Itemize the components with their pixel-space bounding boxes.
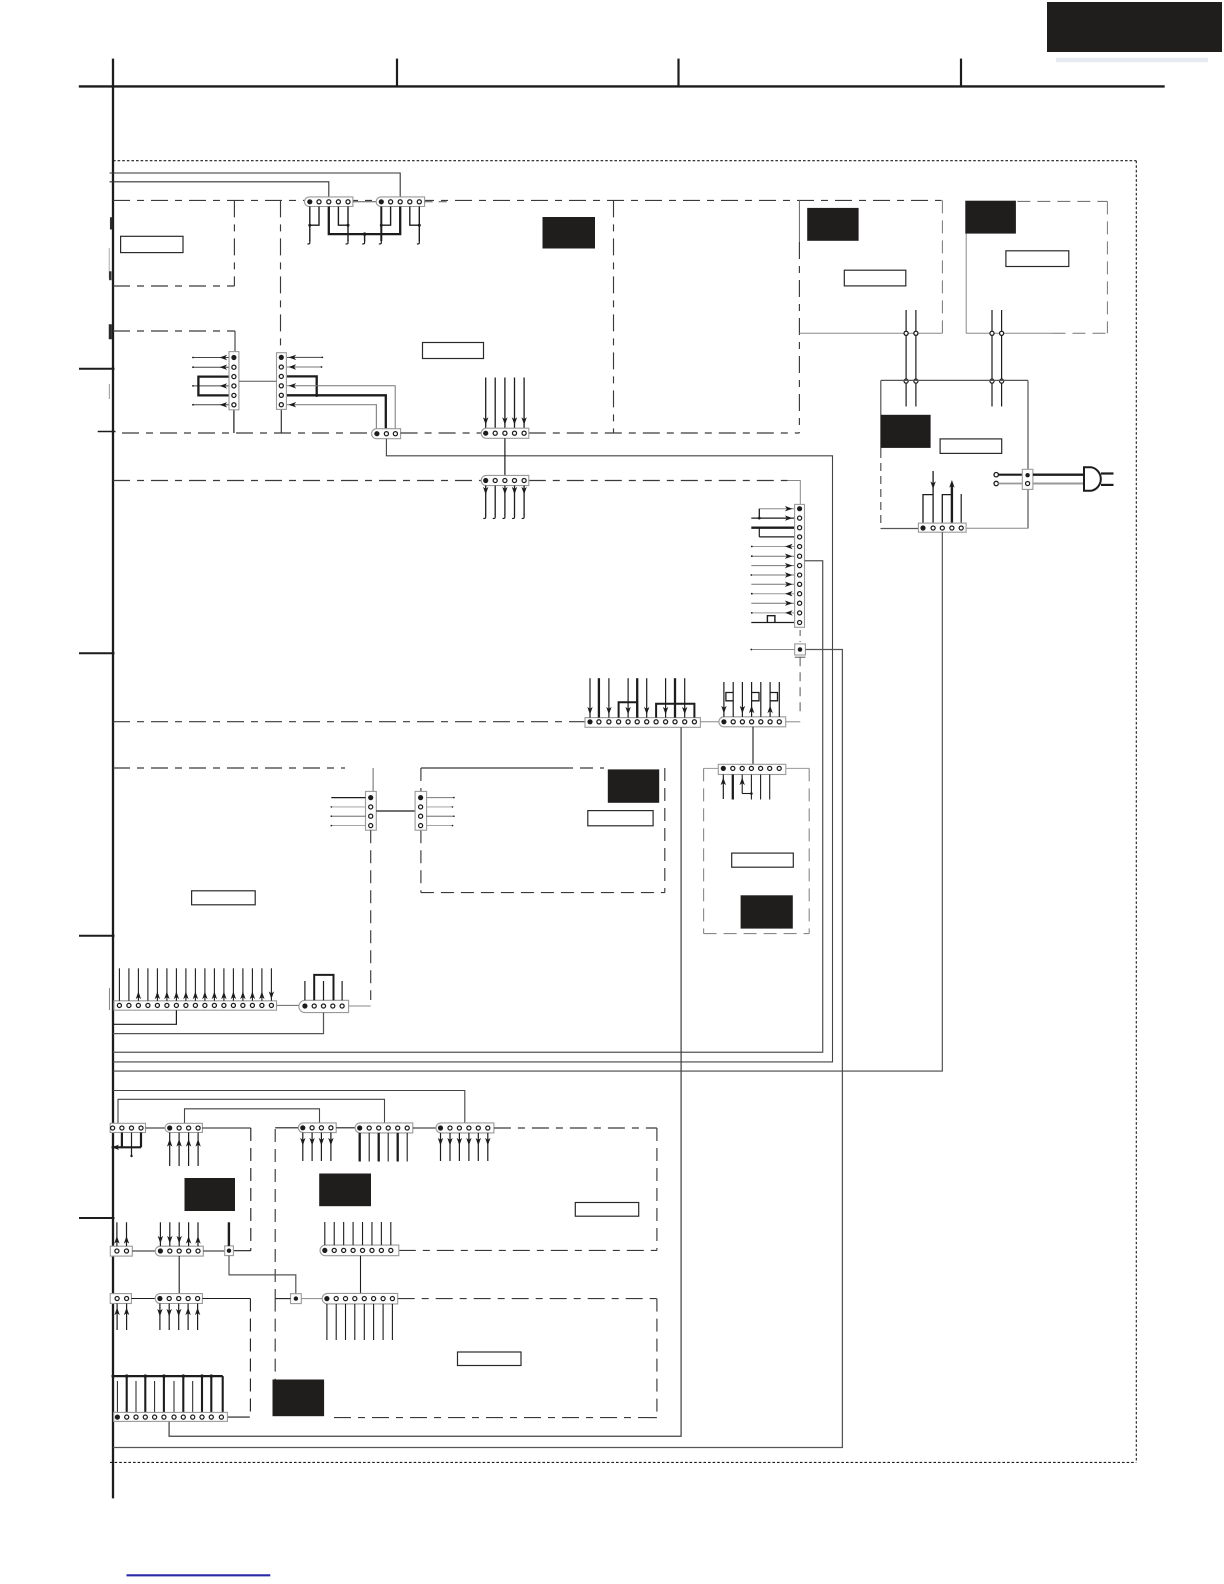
CN101 pin2 signal line (out, left) [192,365,228,370]
harness wires into CN301 [587,678,687,717]
connector CN-P1 (4-pin vertical) [366,791,377,830]
label plate in board B1 [575,1203,638,1217]
module 1b bottom stub of CN101 [233,410,235,433]
wires into CN-W6 [325,1222,391,1245]
wire CN202 pin2 to main-board bus (long) [113,439,833,1062]
module 5 top boundary [1017,200,1107,202]
connector CN-W5b (5-pin) [155,1294,202,1304]
module 5 right edge (dashed) [1106,201,1108,333]
link CN-W5 to CN-X1 [203,1250,224,1252]
CN205 pin4 line [759,536,794,538]
wires out of CN-W3a (arrows down) [300,1133,334,1161]
CN205 pin3-pin4 tie [758,528,760,537]
wire module5 to PSU pair [992,310,1002,407]
CN-S pin5 stub [341,981,343,1000]
CN205 pin2 line (arrow in) [751,515,794,520]
page frame: top tick 2 [677,59,679,87]
CN101 pin4 signal line (out, left) [192,383,228,388]
module 1 box (top-left, dash-dot) [113,200,234,286]
CN-P2 pin2 lead [427,806,454,808]
wires out of CN-W5b [157,1304,200,1331]
CN101 pins3-5 loop jumper (thick) [198,377,228,396]
connector CN-W2 (4-pin) [165,1123,202,1132]
wire CN301 to CN-T row (long) [169,727,681,1436]
connector CN-G (5-pin, PSU) [918,523,966,532]
wires into CN-V1 (arrows up) [114,1222,129,1246]
CN301 bracket pins8-12 [656,704,694,718]
connector CNJ (1-pin) [795,644,806,655]
module 4 bottom edge [799,332,942,334]
wire CN-X1 to CN-X2 [229,1256,296,1294]
CN-A pin4 jumper to pin5 [338,207,349,227]
wire CN-W6 down to CN-W6b [360,1256,362,1294]
CN-T odd-pin hangs [117,1381,192,1412]
CN205 pin1-pin2 tie [758,509,760,518]
inline sockets module5/PSU [990,331,1004,383]
CN-B pin1 drop wire [379,207,381,245]
sub board Q left edge (dashed, CN-P2 sits on it) [420,768,422,893]
connector CN203 (5-pin) [481,428,529,438]
connector CN-A (5-pin) [304,197,352,207]
IC block (redacted) in module 4 [807,208,858,241]
bus wire margin to CN-W4 [113,1091,465,1123]
CN201 pin6 wire to CN202 pin1 [287,402,376,429]
wires out of CN-V2 (arrows up) [114,1304,129,1331]
IC block (redacted) in module 5 [965,201,1016,234]
CN-G pin4 wire with up arrow (thick) [949,480,954,523]
board B1 left edge (dashed) [274,1129,276,1299]
module 2 left edge (dash-dot) [280,200,283,433]
IC block (redacted) in sub board Q [608,769,659,802]
page frame: left tick at y=653 [79,652,115,654]
CN201 pin2 signal line [287,364,322,369]
link CN-S to front board edge [349,1005,371,1007]
wires out of CN-W3 [360,1133,408,1162]
wire CN-W2 to CN-X1 (dash-dot riser) [202,1128,250,1251]
connector CN-T (12-pin) [114,1412,228,1421]
label plate in module 1 [121,236,183,252]
IC block (redacted) on PSU [881,415,931,448]
board B2 left edge (dashed) [274,1299,276,1380]
connector CN-W6 (8-pin) [320,1245,399,1256]
sub board N left edge (dashed) [703,768,705,933]
front board right edge (dashed) below CN-P1 [370,830,372,1000]
CN-P1 pin3 lead [331,815,366,817]
wire CN-W5b to CN-T link (dash-dot riser) [202,1299,250,1418]
label plate in sub board N [732,853,794,867]
CN-A pin1 drop wire [307,207,309,245]
inline sockets module4/PSU [904,331,918,383]
CN205 pin10 line (arrow out) [751,591,794,596]
label plate in module 5 [1006,251,1069,267]
CN101 pin1 signal line (out, left) [192,355,228,360]
page frame: left tick at y=1218 [79,1217,115,1219]
CN205 pin7 line (arrow in) [751,563,794,568]
AC connector (2-pin) [1022,469,1033,489]
module row bottom boundary (dash-dot) left part [122,432,372,434]
CN-B pin2 jumper to pin1 [380,207,391,227]
CN-B pin5 drop wire [417,207,419,245]
page frame: top tick 1 [396,59,398,87]
CN301 bracket pins4-6 [619,702,638,717]
wires into CN-W5 [158,1222,201,1246]
CN-W1 ground bus below [112,1133,142,1158]
CN205 pin8 line (arrow in) [750,572,794,577]
link CN-W5 bottom to CN-W5b [178,1256,180,1294]
IC block (redacted) left of board B2 [273,1380,325,1417]
label plate on PSU [940,439,1002,454]
front board edge riser to CN-P1 [372,768,374,791]
board B2 bottom edge (dash-dot) [334,1417,657,1419]
CN201 pin3 shield jumper (thick) [287,376,318,397]
jumper CN-W1 to CN-W3 [118,1099,385,1123]
CN-P1 pin2 lead [331,806,366,808]
connector CN-W5 (5-pin) [155,1246,203,1256]
module 3 right edge (dash-dot) [798,242,800,433]
module 5 bottom edge [966,332,1107,334]
connector CN-W3 (6-pin) [355,1123,413,1133]
junction on shield wire [363,232,366,235]
connector CN205 (13-pin vertical) [795,504,805,627]
black IC (redacted) above CN-W6 row [319,1174,371,1207]
page frame: left tick at y=369 [79,368,115,370]
CN-A pin5 drop wire [346,207,348,245]
module 4 right edge (dashed) [941,200,943,333]
connector CN-R (17-pin) [114,1001,277,1010]
CN201 pin1 signal line [287,355,323,360]
connector CN-B (5-pin) [376,197,424,207]
text remnant on left rule 1 [110,218,112,230]
title block (redacted) top right [1047,2,1222,52]
connector CN-X1 (1-pin) [225,1246,234,1256]
connector CN303 (7-pin) [718,764,786,774]
CN-P2 pin1 lead [427,797,455,799]
main board top boundary (dash-dot) left of CN204 [113,480,481,482]
link CN203 to CN204 [504,438,506,475]
text remnant on left rule 2 [109,248,111,280]
CN205 pin1 line (arrow in) [759,506,794,511]
board B1 right edge (dashed) [656,1128,658,1250]
text remnant on left rule 5 [108,988,110,1010]
CN205 pin13 line with ferrite staple [751,616,794,623]
main board top boundary corner into CN205 [788,481,801,505]
module 1b top boundary [113,330,235,332]
IC block (redacted) in module 2 [543,217,596,249]
CN-T ground bus (thick) [112,1375,223,1377]
main board right edge dashes above CNJ [799,630,801,642]
dotted enclosure border right [1135,161,1137,1463]
AC plug symbol [1084,467,1114,491]
IC block (redacted) in sub board N [741,895,793,928]
AC neutral lead [998,483,1022,485]
CN-G pin1 jumper up [923,495,933,528]
wire from margin to CN-B pin3 [110,173,401,197]
link CN-W3a to CN-W3 [336,1127,355,1129]
page frame: top horizontal rule [79,85,1165,87]
CN-G pin3 jumper up [942,495,952,523]
label plate in sub board Q [588,811,653,826]
label plate in front board [192,891,256,905]
main board bottom boundary (dash-dot) [113,721,585,723]
connector CN-V2 (2-pin) [110,1294,131,1304]
connector CN101 (6-pin vertical) [229,352,239,410]
connector CN-W1 (4-pin) [110,1123,145,1132]
wire CN-G pin3 to bus (long) [113,532,942,1071]
front board black IC (redacted) lower-left [185,1178,236,1211]
wire CN-S pin3 to margin [113,1013,324,1034]
faint subtitle remnant [1056,58,1208,63]
link CN301 to CN302 [700,721,719,723]
board B1 top edge (dash-dot) [494,1127,657,1129]
harness wires out of CN204 (arrows down) [483,486,527,519]
connector CN201 (6-pin vertical) [277,353,287,410]
wire module4 to PSU pair [906,310,916,407]
wire from margin to CN-A pin3 [110,182,329,197]
CN-S bracket pins2-4 [314,975,333,1000]
wire CNJ to bottom bus (long, grey) [113,650,842,1448]
sub board Q bottom edge (dashed) [421,892,665,894]
link CN-W1 to CN-W2 [146,1127,166,1129]
CN205 pin5 line (arrow out) [751,544,794,549]
CN205 pin9 line (arrow in) [751,582,794,587]
wire CN302 pin4 down to CN303 [752,727,754,765]
thick lead into CN-X1 [228,1222,230,1246]
text remnant on left rule 4 [108,384,110,399]
AC cord live [1033,474,1084,476]
CN205 pin6 line (arrow in) [751,554,794,559]
link CN-R to CN-S [277,1004,299,1006]
sub board Q right edge (dashed) [664,768,666,893]
front board top boundary (dash-dot) [113,767,345,769]
board B1 bottom edge (dash-dot) [399,1249,657,1251]
wire CN205 pins6/7 to bus (long, grey) [113,561,823,1052]
link CN-V2 to CN-W5b [131,1298,155,1300]
CNJ left lead [750,649,794,651]
module row bottom boundary mid part [401,432,482,434]
module 5 left edge [965,210,967,333]
page frame: left tick at y=936 [79,935,115,937]
link CN-A to CN-B [353,201,376,203]
CN-A pin2 jumper to pin1 [308,207,319,227]
sub board N bottom edge (dashed) [704,933,810,935]
connector CN-S (5-pin) [299,1000,349,1012]
dotted enclosure border bottom [110,1461,1136,1463]
wires out of CN303 [721,775,770,800]
page frame: left margin vertical rule [112,59,114,1499]
left margin tick at dash row [98,431,116,433]
module row top boundary (dash-dot) [113,199,942,201]
main board top boundary right of CN204 [529,480,788,482]
wires out of CN-W4 (arrows down) [438,1133,491,1161]
link CN-X2 to CN-W6b [301,1298,322,1300]
CN-T even-pin drops (thick) [125,1374,223,1412]
CN-P2 pin4 lead [427,825,454,827]
CN205 pin12 line (arrow out) [751,610,794,615]
link board edge to CN-X2 [275,1298,290,1300]
CN-A pin3 shield wire (thick) to CN-B pin3 [329,207,400,235]
board B2 top edge (dash-dot) [398,1298,657,1300]
connector CN-W6b (8-pin) [322,1293,398,1304]
module 1b right edge above CN101 [234,331,236,352]
dotted enclosure border top [113,160,1136,162]
CN-S pin3 stub [323,981,325,1000]
page frame: top tick 3 [960,59,962,87]
CN201 pin4 wire to CN202 pin3 [287,383,395,429]
CN-P2 pin3 lead [427,815,455,817]
shield wire stub drop [362,234,364,244]
CN205 pin11 line (arrow in) [751,601,794,606]
CN-G pin5 stub [960,494,962,523]
link CN101 to CN201 [239,380,277,382]
dash lead right of CN-B [425,201,448,203]
jumper CN-W2 to CN-W3a [185,1109,320,1124]
sub board N right edge (dashed) [808,768,810,933]
CN-P1 pin4 lead [331,825,366,827]
CN101 pin6 signal line (out, left) [192,402,228,407]
link CN302 to board edge [786,721,801,723]
harness wires into CN-R [119,968,274,1001]
sub board Q top edge [421,767,604,769]
CN205 pin3 line (thick) [751,527,794,529]
connector CN302 (7-pin) [719,717,786,727]
board B2 right edge (dashed) [656,1299,658,1418]
CN-P1 pin1 lead [331,797,365,799]
connector CN301 (12-pin) [585,718,700,728]
CN201 pin5 wire (thick) to CN202 pin2 [287,395,386,428]
power supply board outline [881,380,1028,528]
AC cord neutral [1033,483,1084,485]
link CN-P1 to CN-P2 [376,810,415,812]
connector CN204 (5-pin) [481,475,529,485]
label plate in module 2 [423,343,484,359]
connector CN202 (3-pin) [372,429,401,439]
connector CN-X2 (1-pin) [291,1294,302,1304]
link edge to CN-W3a [275,1127,298,1129]
footer link underline [127,1574,271,1576]
connector CN-P2 (4-pin vertical) [415,791,427,830]
CN-S pin1 stub [304,981,306,1000]
sub board N top edge [704,767,810,769]
AC live lead [998,474,1022,476]
CN-G pin2 wire with down arrow [930,471,935,523]
text remnant on left rule 3 [109,325,112,340]
label plate in module 4 [844,270,906,286]
module row bottom boundary right part [529,432,800,434]
label plate in board B2 [458,1352,522,1366]
CN-B pin4 jumper to pin5 [410,207,421,227]
module 2 right edge (dash-dot) [613,200,615,432]
wires out of CN-W6b [327,1304,393,1340]
harness wires into CN302 [721,682,779,717]
link CN-W3 to CN-W4 [413,1127,436,1129]
wire CN-R pin7 to margin [114,1010,176,1024]
AC interlock socket circles [994,473,998,486]
connector CN-W4 (6-pin) [436,1123,494,1133]
wires out of CN-W2 (arrows up) [167,1133,201,1167]
main board right edge dashes below CNJ [795,657,806,716]
connector CN-W3a (4-pin) [298,1123,336,1133]
link CN-V1 to CN-W5 [132,1250,155,1252]
module 4 left edge [798,200,800,242]
connector CN-V1 (2-pin) [110,1246,132,1256]
harness wires into CN203 (arrows down) [483,378,527,429]
